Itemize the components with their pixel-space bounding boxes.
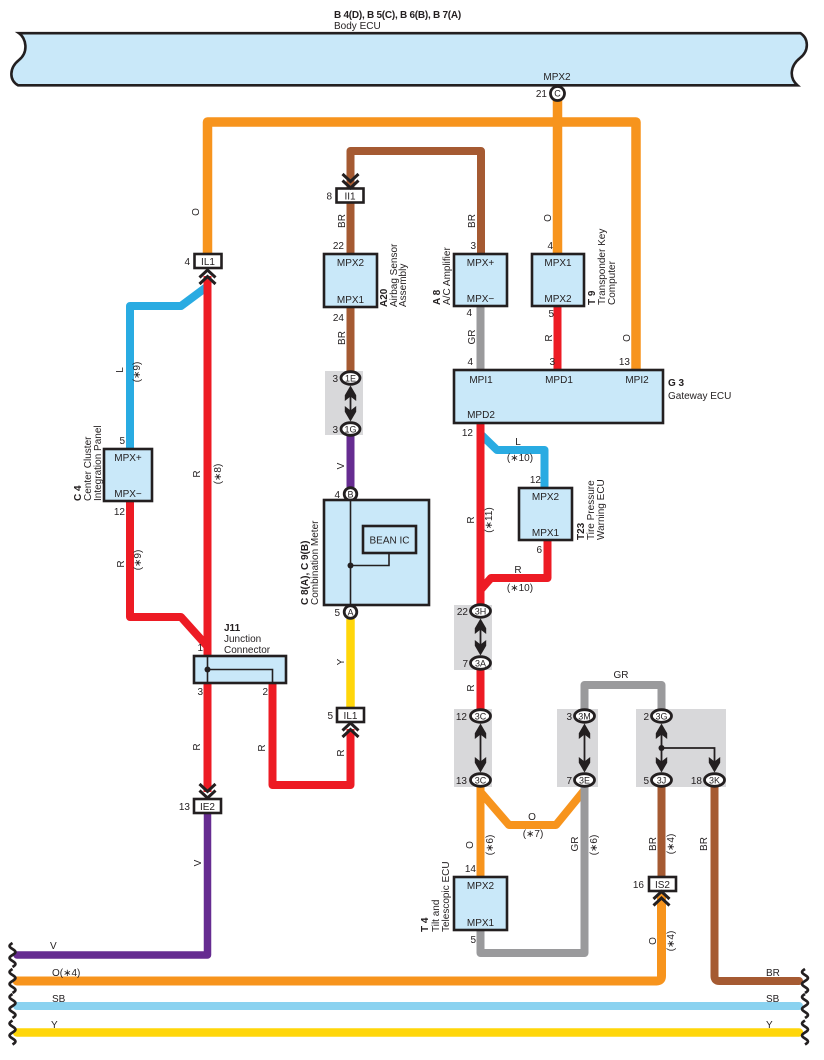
wire R (*10) from T23 pin 6 joining R wire bbox=[481, 539, 548, 590]
svg-text:R: R bbox=[192, 743, 203, 750]
svg-text:(∗7): (∗7) bbox=[523, 829, 544, 840]
svg-text:16: 16 bbox=[633, 880, 645, 891]
svg-text:3H: 3H bbox=[475, 607, 487, 617]
svg-text:3A: 3A bbox=[475, 659, 486, 669]
svg-text:SB: SB bbox=[766, 994, 780, 1005]
svg-text:MPD1: MPD1 bbox=[545, 375, 573, 386]
wire Y bus across bottom bbox=[17, 1028, 799, 1037]
svg-text:3K: 3K bbox=[709, 776, 720, 786]
svg-text:12: 12 bbox=[530, 475, 542, 486]
svg-text:(∗9): (∗9) bbox=[132, 362, 143, 383]
wire O (*4) from IS2 chevron down to bottom bus bbox=[17, 897, 662, 981]
svg-text:4: 4 bbox=[467, 357, 473, 368]
wire L (*10) branch from R wire to T23 pin 12 bbox=[481, 434, 545, 488]
connector IS2 pin 16 bbox=[633, 877, 676, 891]
wire SB bus across bottom bbox=[17, 1002, 799, 1010]
chevron into IL1 pin 5 bbox=[343, 723, 359, 737]
svg-text:8: 8 bbox=[326, 192, 332, 203]
ECU box T4 Tilt and Telescopic ECU bbox=[420, 861, 507, 946]
svg-text:13: 13 bbox=[179, 802, 191, 813]
svg-text:12: 12 bbox=[456, 712, 468, 723]
svg-text:R: R bbox=[257, 744, 268, 751]
svg-text:BR: BR bbox=[467, 214, 478, 228]
junction connector J11 bbox=[194, 623, 286, 698]
wire R (*9) from C4 pin 12 to J11 pin 1 bbox=[130, 501, 207, 646]
svg-text:R: R bbox=[192, 470, 203, 477]
svg-text:Gateway ECU: Gateway ECU bbox=[668, 391, 731, 402]
meter connector B pin 4 bbox=[334, 488, 356, 501]
internal line from B to A inside meter bbox=[350, 500, 352, 605]
chevron into IS2 bbox=[654, 892, 670, 906]
svg-text:(∗9): (∗9) bbox=[133, 550, 144, 571]
connector II1 pin 8 bbox=[326, 189, 363, 203]
svg-text:Telescopic ECU: Telescopic ECU bbox=[441, 861, 452, 932]
svg-text:BR: BR bbox=[337, 214, 348, 228]
connector IE2 pin 13 bbox=[179, 799, 221, 813]
wire GR from 3M up over to 3G bbox=[585, 685, 662, 711]
wire R from J11 pin 3 down to IE2 bbox=[204, 684, 212, 792]
wire BR from A20 pin 24 to connector 1E bbox=[347, 307, 355, 372]
svg-text:24: 24 bbox=[333, 313, 345, 324]
svg-text:II1: II1 bbox=[344, 192, 356, 203]
wire R (*11) from G3 pin 12 MPD2 down to 3H bbox=[477, 423, 485, 605]
svg-text:V: V bbox=[336, 462, 347, 469]
svg-text:BR: BR bbox=[766, 968, 780, 979]
svg-text:MPX2: MPX2 bbox=[337, 258, 365, 269]
svg-text:Y: Y bbox=[766, 1020, 773, 1031]
svg-text:(∗4): (∗4) bbox=[666, 931, 677, 952]
connector IL1 pin 5 bbox=[327, 708, 364, 722]
svg-text:O(∗4): O(∗4) bbox=[52, 968, 80, 979]
svg-text:Body ECU: Body ECU bbox=[334, 21, 381, 32]
svg-text:5: 5 bbox=[334, 608, 340, 619]
svg-text:L: L bbox=[515, 437, 521, 448]
svg-text:MPX2: MPX2 bbox=[532, 492, 560, 503]
svg-text:Warning ECU: Warning ECU bbox=[596, 479, 607, 540]
svg-text:1G: 1G bbox=[344, 425, 356, 435]
svg-text:13: 13 bbox=[456, 776, 468, 787]
wire O (*7) branch from 3C wire to 3E bbox=[481, 790, 585, 825]
svg-text:7: 7 bbox=[566, 776, 572, 787]
svg-text:12: 12 bbox=[462, 428, 474, 439]
svg-text:3C: 3C bbox=[475, 712, 487, 722]
svg-text:T 4: T 4 bbox=[420, 917, 431, 932]
svg-text:18: 18 bbox=[691, 776, 703, 787]
svg-text:Junction: Junction bbox=[224, 634, 261, 645]
svg-text:5: 5 bbox=[119, 436, 125, 447]
wire BR (*4) from 3J down to IS2 bbox=[658, 785, 666, 876]
connector C pin 21 on Body ECU bbox=[536, 87, 565, 101]
svg-text:J11: J11 bbox=[224, 623, 241, 634]
svg-text:1: 1 bbox=[197, 643, 203, 654]
wire O (*6) from 3C to T4 pin 14 bbox=[477, 785, 485, 876]
svg-text:2: 2 bbox=[643, 712, 649, 723]
svg-text:5: 5 bbox=[327, 711, 333, 722]
svg-text:4: 4 bbox=[184, 257, 190, 268]
svg-text:MPX2: MPX2 bbox=[544, 294, 572, 305]
svg-text:3: 3 bbox=[332, 425, 338, 436]
wire BR from II1 down to A20 pin 22 bbox=[347, 202, 355, 254]
svg-text:BR: BR bbox=[648, 837, 659, 851]
svg-text:BR: BR bbox=[699, 837, 710, 851]
svg-text:(∗4): (∗4) bbox=[666, 834, 677, 855]
wire BR from 3K down to right edge bus bbox=[715, 785, 800, 981]
svg-text:MPX1: MPX1 bbox=[544, 258, 572, 269]
svg-text:(∗10): (∗10) bbox=[507, 583, 533, 594]
svg-text:O: O bbox=[648, 937, 659, 945]
svg-text:3J: 3J bbox=[657, 776, 667, 786]
svg-text:MPX1: MPX1 bbox=[337, 295, 365, 306]
wire O continuing down to T9 pin 4 bbox=[553, 117, 563, 253]
svg-text:B 4(D), B 5(C), B 6(B), B 7(A): B 4(D), B 5(C), B 6(B), B 7(A) bbox=[334, 10, 461, 21]
svg-text:V: V bbox=[50, 941, 57, 952]
svg-text:G 3: G 3 bbox=[668, 378, 685, 389]
svg-text:MPX+: MPX+ bbox=[467, 258, 495, 269]
wire BR from II1 to A8 pin 3 bbox=[351, 151, 482, 253]
chevron into IL1 bbox=[200, 270, 216, 284]
svg-text:MPX−: MPX− bbox=[467, 294, 495, 305]
wire R from T9 pin 5 to G3 pin 3 MPD1 bbox=[554, 306, 562, 369]
svg-text:Connector: Connector bbox=[224, 645, 271, 656]
connector IL1 pin 4 bbox=[184, 254, 221, 268]
svg-text:(∗6): (∗6) bbox=[589, 835, 600, 856]
svg-text:MPD2: MPD2 bbox=[467, 410, 495, 421]
svg-text:GR: GR bbox=[467, 330, 478, 345]
svg-text:(∗8): (∗8) bbox=[213, 464, 224, 485]
svg-text:(∗10): (∗10) bbox=[507, 453, 533, 464]
ECU box T23 Tire Pressure Warning ECU bbox=[519, 475, 607, 556]
svg-text:Integration Panel: Integration Panel bbox=[93, 425, 104, 501]
svg-text:O: O bbox=[528, 812, 536, 823]
svg-text:R: R bbox=[544, 334, 555, 341]
svg-text:SB: SB bbox=[52, 994, 66, 1005]
chevron into IE2 bbox=[200, 784, 216, 798]
svg-text:Y: Y bbox=[336, 658, 347, 665]
svg-text:3E: 3E bbox=[579, 776, 590, 786]
svg-text:7: 7 bbox=[462, 659, 468, 670]
ECU box A8 A/C Amplifier bbox=[432, 241, 507, 319]
svg-text:MPI1: MPI1 bbox=[469, 375, 493, 386]
svg-text:A/C Amplifier: A/C Amplifier bbox=[442, 247, 453, 305]
svg-text:22: 22 bbox=[457, 607, 469, 618]
svg-text:4: 4 bbox=[466, 308, 472, 319]
svg-text:IE2: IE2 bbox=[200, 802, 215, 813]
svg-text:R: R bbox=[466, 516, 477, 523]
wire Y from meter connector A to IL1 pin 5 bbox=[346, 619, 355, 707]
svg-text:MPI2: MPI2 bbox=[625, 375, 649, 386]
svg-text:A: A bbox=[347, 608, 353, 618]
Body ECU bar B 4(D), B 5(C), B 6(B), B 7(A) bbox=[11, 10, 806, 85]
svg-text:R: R bbox=[116, 560, 127, 567]
meter connector A pin 5 bbox=[334, 606, 356, 619]
svg-text:12: 12 bbox=[114, 507, 126, 518]
svg-text:3C: 3C bbox=[475, 776, 487, 786]
svg-text:2: 2 bbox=[262, 687, 268, 698]
ECU box C8/C9 Combination Meter bbox=[300, 500, 429, 605]
wire L from C4 pin 5 up and to R node near IL1 bbox=[130, 287, 207, 449]
wire V from connector 1G to meter connector B bbox=[347, 435, 355, 487]
wire R from J11 pin 2 down around to IL1 pin 5 bbox=[273, 684, 351, 785]
svg-text:5: 5 bbox=[470, 935, 476, 946]
svg-text:MPX1: MPX1 bbox=[532, 528, 560, 539]
wire R between 3A and 3C bbox=[477, 668, 485, 711]
svg-text:V: V bbox=[193, 859, 204, 866]
squiggle cut marks right edge bbox=[802, 969, 808, 1045]
internal branch to BEAN IC with junction dot bbox=[351, 553, 390, 566]
svg-text:BEAN IC: BEAN IC bbox=[369, 536, 409, 547]
svg-text:(∗11): (∗11) bbox=[484, 507, 495, 532]
svg-text:MPX2: MPX2 bbox=[543, 72, 571, 83]
svg-text:IL1: IL1 bbox=[344, 711, 358, 722]
svg-text:O: O bbox=[465, 841, 476, 849]
svg-text:O: O bbox=[543, 214, 554, 222]
wire O horizontal split right down to G3 pin 13 bbox=[558, 122, 637, 369]
svg-text:O: O bbox=[622, 334, 633, 342]
gray pass-through connectors 3M/3E bbox=[557, 709, 598, 787]
svg-text:3G: 3G bbox=[655, 712, 667, 722]
svg-text:21: 21 bbox=[536, 89, 548, 100]
svg-text:3: 3 bbox=[332, 374, 338, 385]
svg-text:3: 3 bbox=[470, 241, 476, 252]
svg-text:BR: BR bbox=[337, 331, 348, 345]
wire V from IE2 down to left edge bus bbox=[17, 813, 208, 955]
squiggle cut marks left edge bbox=[10, 943, 16, 1045]
chevron into II1 bbox=[343, 174, 359, 188]
svg-text:MPX−: MPX− bbox=[114, 489, 142, 500]
svg-text:MPX2: MPX2 bbox=[467, 881, 495, 892]
svg-text:Assembly: Assembly bbox=[398, 264, 409, 307]
svg-text:(∗6): (∗6) bbox=[485, 835, 496, 856]
svg-text:IS2: IS2 bbox=[655, 880, 670, 891]
svg-text:3: 3 bbox=[197, 687, 203, 698]
svg-text:3M: 3M bbox=[578, 712, 591, 722]
svg-text:3: 3 bbox=[549, 357, 555, 368]
ECU box C4 Center Cluster Integration Panel bbox=[73, 425, 152, 518]
svg-text:5: 5 bbox=[643, 776, 649, 787]
svg-text:Computer: Computer bbox=[607, 260, 618, 305]
svg-text:L: L bbox=[115, 367, 126, 373]
svg-text:IL1: IL1 bbox=[201, 257, 215, 268]
BEAN IC box bbox=[363, 526, 416, 553]
svg-text:13: 13 bbox=[619, 357, 631, 368]
svg-text:4: 4 bbox=[547, 241, 553, 252]
gray pass-through connectors 3C/3C bbox=[454, 709, 492, 787]
ECU box G3 Gateway ECU bbox=[454, 357, 731, 439]
svg-text:1E: 1E bbox=[345, 374, 356, 384]
gray pass-through connectors 3H/3A bbox=[454, 605, 492, 670]
wire O from Body ECU pin 21 down to split bbox=[553, 100, 563, 122]
svg-text:MPX+: MPX+ bbox=[114, 453, 142, 464]
wire GR from A8 pin 4 to G3 pin 4 MPI1 bbox=[477, 306, 485, 369]
wire GR (*6) from T4 pin 5 around to 3E bbox=[481, 785, 585, 953]
svg-text:14: 14 bbox=[465, 864, 477, 875]
svg-text:Combination Meter: Combination Meter bbox=[310, 520, 321, 605]
wire R (*8) from IL1 chevron down to J11 pin 1 bbox=[204, 276, 212, 655]
svg-text:R: R bbox=[466, 684, 477, 691]
svg-text:5: 5 bbox=[548, 309, 554, 320]
gray pass-through connectors 3G/3J/3K bbox=[636, 709, 726, 787]
svg-text:R: R bbox=[336, 749, 347, 756]
svg-text:6: 6 bbox=[536, 545, 542, 556]
svg-text:O: O bbox=[191, 208, 202, 216]
svg-text:MPX1: MPX1 bbox=[467, 918, 495, 929]
svg-text:GR: GR bbox=[570, 837, 581, 852]
gray pass-through connectors 1E/1G bbox=[325, 371, 363, 436]
svg-text:B: B bbox=[347, 490, 353, 500]
svg-text:C: C bbox=[554, 89, 561, 99]
svg-text:R: R bbox=[514, 565, 521, 576]
svg-text:GR: GR bbox=[614, 670, 629, 681]
ECU box A20 Airbag Sensor Assembly bbox=[324, 241, 409, 324]
svg-text:22: 22 bbox=[333, 241, 345, 252]
svg-text:3: 3 bbox=[566, 712, 572, 723]
ECU box T9 Transponder Key Computer bbox=[532, 229, 618, 320]
wire O horizontal split left to IL1 branch bbox=[208, 122, 558, 253]
svg-text:Y: Y bbox=[51, 1020, 58, 1031]
